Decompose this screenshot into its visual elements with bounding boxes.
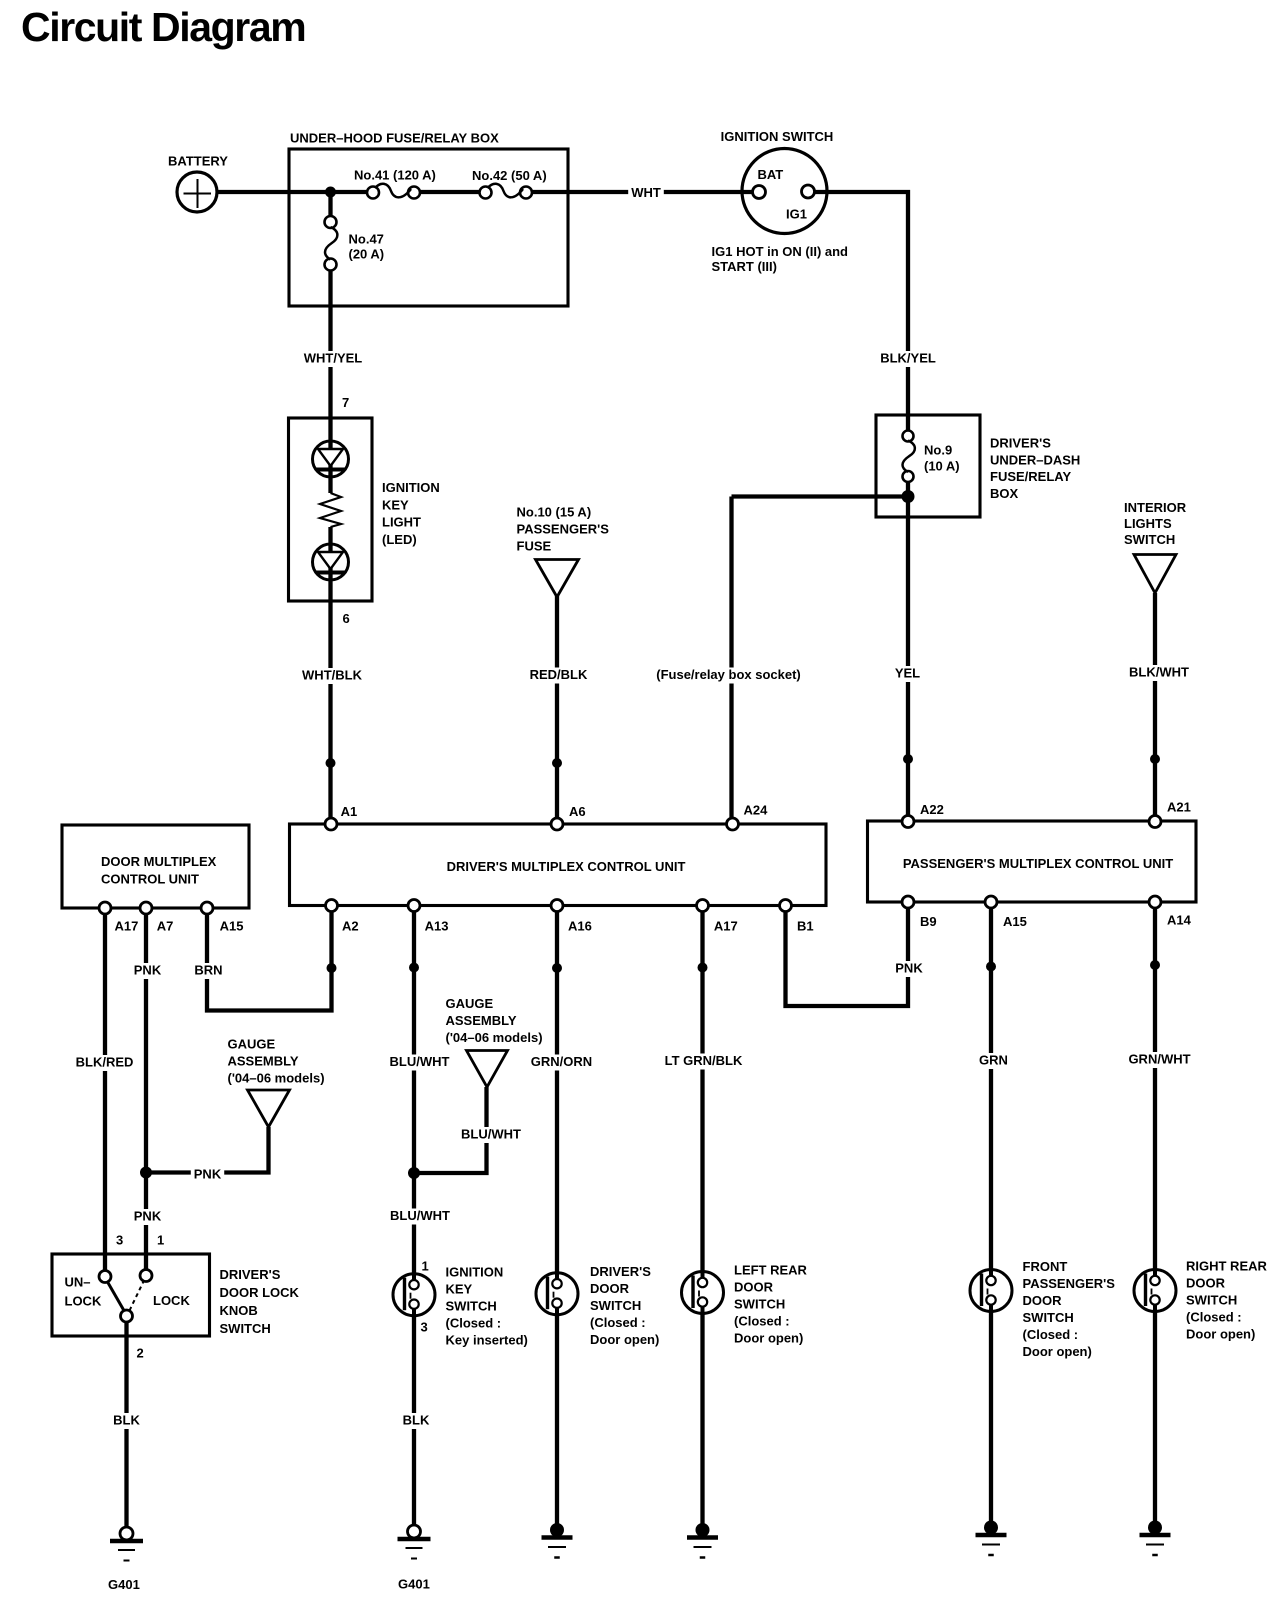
svg-text:(10 A): (10 A) — [924, 459, 960, 474]
svg-text:PASSENGER'S MULTIPLEX CONTROL: PASSENGER'S MULTIPLEX CONTROL UNIT — [903, 856, 1173, 871]
svg-text:PNK: PNK — [134, 963, 162, 978]
svg-text:BOX: BOX — [990, 486, 1019, 501]
svg-text:PNK: PNK — [194, 1167, 222, 1182]
svg-text:A6: A6 — [569, 804, 586, 819]
svg-text:START (III): START (III) — [712, 259, 777, 274]
svg-text:BAT: BAT — [758, 167, 784, 182]
svg-text:IG1 HOT in ON (II) and: IG1 HOT in ON (II) and — [712, 244, 849, 259]
svg-text:Key inserted): Key inserted) — [446, 1333, 528, 1348]
svg-text:3: 3 — [116, 1233, 123, 1248]
svg-text:1: 1 — [422, 1259, 429, 1274]
svg-text:DOOR MULTIPLEX: DOOR MULTIPLEX — [101, 854, 217, 869]
svg-text:(Fuse/relay box socket): (Fuse/relay box socket) — [656, 667, 801, 682]
svg-text:A22: A22 — [920, 802, 944, 817]
svg-text:WHT/YEL: WHT/YEL — [304, 351, 363, 366]
svg-text:FRONT: FRONT — [1023, 1259, 1068, 1274]
svg-text:DOOR: DOOR — [590, 1281, 630, 1296]
svg-text:FUSE: FUSE — [517, 539, 552, 554]
svg-text:Door open): Door open) — [734, 1331, 803, 1346]
svg-text:IG1: IG1 — [786, 207, 807, 222]
svg-text:GAUGE: GAUGE — [228, 1037, 276, 1052]
svg-text:DRIVER'S: DRIVER'S — [590, 1264, 651, 1279]
svg-text:SWITCH: SWITCH — [1124, 532, 1175, 547]
svg-text:WHT/BLK: WHT/BLK — [302, 668, 363, 683]
svg-text:G401: G401 — [108, 1577, 140, 1592]
svg-text:('04–06 models): ('04–06 models) — [446, 1030, 543, 1045]
svg-text:A21: A21 — [1167, 800, 1191, 815]
svg-text:A13: A13 — [425, 919, 449, 934]
svg-text:A15: A15 — [1003, 914, 1027, 929]
svg-text:BLK/RED: BLK/RED — [76, 1055, 134, 1070]
svg-text:A14: A14 — [1167, 913, 1192, 928]
svg-text:(Closed :: (Closed : — [1186, 1310, 1242, 1325]
svg-text:(Closed :: (Closed : — [1023, 1327, 1079, 1342]
svg-text:SWITCH: SWITCH — [734, 1297, 785, 1312]
svg-text:Circuit Diagram: Circuit Diagram — [21, 4, 305, 50]
svg-text:WHT: WHT — [631, 185, 661, 200]
svg-text:LIGHTS: LIGHTS — [1124, 516, 1172, 531]
svg-text:A17: A17 — [115, 919, 139, 934]
svg-text:BLK: BLK — [403, 1413, 430, 1428]
svg-text:DOOR: DOOR — [1023, 1293, 1063, 1308]
svg-text:GRN/WHT: GRN/WHT — [1128, 1052, 1190, 1067]
svg-text:A2: A2 — [342, 919, 359, 934]
svg-text:LT GRN/BLK: LT GRN/BLK — [665, 1053, 743, 1068]
svg-text:DOOR: DOOR — [734, 1280, 774, 1295]
svg-text:FUSE/RELAY: FUSE/RELAY — [990, 469, 1071, 484]
svg-text:PASSENGER'S: PASSENGER'S — [517, 522, 610, 537]
svg-text:(Closed :: (Closed : — [734, 1314, 790, 1329]
svg-text:3: 3 — [421, 1320, 428, 1335]
svg-text:SWITCH: SWITCH — [220, 1321, 271, 1336]
svg-text:GRN/ORN: GRN/ORN — [531, 1054, 592, 1069]
svg-text:(LED): (LED) — [382, 532, 417, 547]
svg-text:RIGHT REAR: RIGHT REAR — [1186, 1259, 1268, 1274]
svg-text:A17: A17 — [714, 919, 738, 934]
svg-text:BLU/WHT: BLU/WHT — [390, 1054, 450, 1069]
svg-text:(Closed :: (Closed : — [446, 1316, 502, 1331]
svg-text:2: 2 — [137, 1346, 144, 1361]
svg-text:PNK: PNK — [134, 1209, 162, 1224]
svg-text:SWITCH: SWITCH — [446, 1299, 497, 1314]
svg-text:BLK/YEL: BLK/YEL — [880, 351, 936, 366]
svg-text:IGNITION: IGNITION — [382, 480, 440, 495]
svg-text:UNDER–DASH: UNDER–DASH — [990, 452, 1080, 467]
svg-text:IGNITION SWITCH: IGNITION SWITCH — [721, 129, 834, 144]
svg-text:YEL: YEL — [895, 666, 920, 681]
svg-text:CONTROL UNIT: CONTROL UNIT — [101, 872, 199, 887]
svg-text:ASSEMBLY: ASSEMBLY — [446, 1013, 517, 1028]
svg-text:DRIVER'S: DRIVER'S — [220, 1267, 281, 1282]
svg-text:No.41 (120 A): No.41 (120 A) — [354, 168, 436, 183]
svg-text:SWITCH: SWITCH — [1186, 1293, 1237, 1308]
svg-text:GAUGE: GAUGE — [446, 996, 494, 1011]
svg-text:G401: G401 — [398, 1577, 430, 1592]
svg-text:UN–: UN– — [65, 1275, 91, 1290]
svg-text:LIGHT: LIGHT — [382, 515, 421, 530]
svg-text:PASSENGER'S: PASSENGER'S — [1023, 1276, 1116, 1291]
svg-text:No.42 (50 A): No.42 (50 A) — [472, 168, 547, 183]
svg-text:(Closed :: (Closed : — [590, 1315, 646, 1330]
svg-text:6: 6 — [343, 611, 350, 626]
svg-text:LOCK: LOCK — [65, 1294, 102, 1309]
svg-text:DOOR LOCK: DOOR LOCK — [220, 1285, 300, 1300]
svg-text:BLK/WHT: BLK/WHT — [1129, 665, 1189, 680]
svg-text:BLK: BLK — [113, 1413, 140, 1428]
svg-text:1: 1 — [157, 1233, 164, 1248]
svg-text:PNK: PNK — [895, 961, 923, 976]
svg-text:KNOB: KNOB — [220, 1303, 258, 1318]
svg-text:BLU/WHT: BLU/WHT — [461, 1127, 521, 1142]
svg-text:BRN: BRN — [194, 963, 222, 978]
svg-text:UNDER–HOOD FUSE/RELAY BOX: UNDER–HOOD FUSE/RELAY BOX — [290, 131, 499, 146]
svg-text:RED/BLK: RED/BLK — [530, 667, 588, 682]
svg-text:LOCK: LOCK — [153, 1293, 190, 1308]
svg-text:Door open): Door open) — [1186, 1327, 1255, 1342]
svg-text:A16: A16 — [568, 919, 592, 934]
svg-text:KEY: KEY — [382, 497, 409, 512]
svg-text:INTERIOR: INTERIOR — [1124, 500, 1187, 515]
svg-text:A24: A24 — [744, 803, 769, 818]
svg-text:No.47: No.47 — [349, 232, 384, 247]
svg-text:('04–06 models): ('04–06 models) — [228, 1071, 325, 1086]
svg-text:DRIVER'S: DRIVER'S — [990, 436, 1051, 451]
svg-text:DRIVER'S MULTIPLEX CONTROL UNI: DRIVER'S MULTIPLEX CONTROL UNIT — [447, 859, 686, 874]
svg-text:Door open): Door open) — [1023, 1344, 1092, 1359]
svg-text:No.10 (15 A): No.10 (15 A) — [517, 505, 592, 520]
svg-text:BATTERY: BATTERY — [168, 154, 228, 169]
svg-text:A1: A1 — [341, 804, 358, 819]
svg-text:LEFT REAR: LEFT REAR — [734, 1263, 808, 1278]
svg-text:(20 A): (20 A) — [349, 247, 385, 262]
svg-text:Door open): Door open) — [590, 1332, 659, 1347]
svg-text:SWITCH: SWITCH — [1023, 1310, 1074, 1325]
svg-text:GRN: GRN — [979, 1053, 1008, 1068]
svg-text:B9: B9 — [920, 914, 937, 929]
svg-text:ASSEMBLY: ASSEMBLY — [228, 1054, 299, 1069]
svg-text:No.9: No.9 — [924, 443, 952, 458]
svg-text:KEY: KEY — [446, 1282, 473, 1297]
svg-text:A15: A15 — [220, 919, 244, 934]
svg-text:7: 7 — [342, 395, 349, 410]
svg-text:DOOR: DOOR — [1186, 1276, 1226, 1291]
svg-text:BLU/WHT: BLU/WHT — [390, 1208, 450, 1223]
svg-text:B1: B1 — [797, 919, 814, 934]
svg-text:IGNITION: IGNITION — [446, 1265, 504, 1280]
svg-text:A7: A7 — [157, 919, 174, 934]
svg-text:SWITCH: SWITCH — [590, 1298, 641, 1313]
